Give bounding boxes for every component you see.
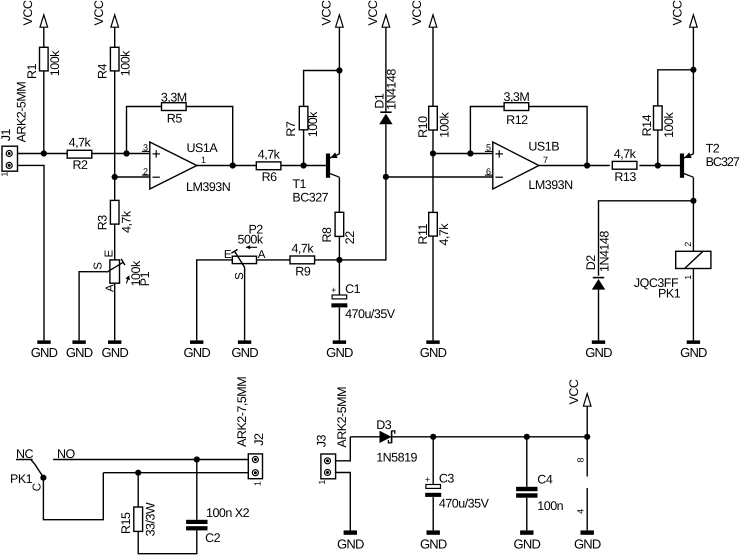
relay contact PK1 (NC/NO/C) (10, 447, 76, 491)
wire D1 anode down (339, 124, 386, 260)
wire P2 wiper to GND (244, 268, 246, 341)
svg-text:8: 8 (575, 458, 585, 463)
ground (D2) (585, 340, 612, 360)
svg-text:C: C (31, 483, 43, 491)
junction R12 feedback/+input (467, 150, 473, 156)
wire R10 node to US1B +input (433, 153, 493, 155)
wire VCC to R4 (114, 27, 116, 47)
op-amp US1A LM393N (142, 141, 231, 194)
svg-text:1N4148: 1N4148 (598, 231, 612, 272)
svg-text:GND: GND (337, 537, 364, 552)
resistor R4 100k (96, 47, 133, 79)
junction R7/base wire (301, 162, 307, 168)
ground (C4) (514, 530, 541, 551)
wire collector to D2 (599, 201, 694, 276)
relay coil PK1 JQC3FF (634, 242, 711, 301)
svg-text:A: A (258, 249, 266, 261)
wire US1B output (539, 165, 610, 167)
svg-text:2: 2 (143, 166, 148, 176)
svg-text:R10: R10 (416, 116, 430, 138)
svg-text:GND: GND (101, 345, 128, 360)
wire VCC to supply row (586, 406, 588, 476)
wire R7 top (304, 71, 340, 107)
svg-text:R7: R7 (284, 121, 298, 137)
svg-text:GND: GND (231, 345, 258, 360)
svg-text:+: + (331, 285, 336, 295)
svg-text:GND: GND (183, 345, 210, 360)
svg-text:R1: R1 (25, 63, 39, 79)
wire coil to GND (692, 269, 694, 341)
wire T1 collector to R8 (338, 177, 340, 212)
capacitor C3 470u/35V (425, 472, 490, 511)
wire C3 to GND (432, 497, 434, 530)
wire NO row (53, 459, 248, 461)
svg-text:ARK2-5MM: ARK2-5MM (14, 82, 28, 143)
capacitor C4 100n (516, 472, 564, 513)
connector J2 ARK2-7,5MM (235, 377, 266, 486)
junction D1/US1B -input (383, 174, 389, 180)
diode D1 1N4148 (372, 69, 398, 125)
wire C to riser (43, 473, 103, 520)
svg-text:1: 1 (201, 155, 206, 165)
svg-text:US1A: US1A (187, 141, 219, 155)
svg-text:J1: J1 (0, 128, 13, 141)
svg-text:22: 22 (343, 231, 357, 244)
wire J1 pin1 to R2 (18, 153, 68, 155)
junction R1/J1/R2 (41, 150, 47, 156)
wire -input junction to R3 (114, 177, 116, 200)
svg-text:US1B: US1B (528, 140, 559, 154)
svg-text:4,7k: 4,7k (291, 242, 314, 256)
svg-text:J2: J2 (252, 433, 266, 446)
wire D2 to GND (598, 290, 600, 341)
resistor R10 100k (416, 106, 452, 138)
wire J3 pin2 to GND (336, 473, 351, 531)
svg-text:GND: GND (326, 345, 353, 360)
wire C1 to GND (338, 308, 340, 341)
wire P2-A to R9 (257, 259, 291, 261)
resistor R1 100k (25, 47, 62, 79)
svg-text:PK1: PK1 (10, 472, 33, 486)
svg-text:J3: J3 (315, 434, 329, 447)
wire J3 pin1 up (336, 437, 351, 461)
resistor R2 4,7k (67, 135, 92, 172)
svg-text:R14: R14 (640, 114, 654, 136)
svg-text:7: 7 (543, 155, 548, 165)
wire P2-E to GND (197, 260, 233, 341)
svg-text:GND: GND (420, 537, 447, 552)
svg-text:T1: T1 (292, 177, 306, 191)
wire R8 to node (338, 236, 340, 260)
wire C2 top (196, 460, 198, 520)
ground (J1) (31, 340, 58, 360)
svg-text:500k: 500k (238, 232, 264, 246)
svg-text:1N5819: 1N5819 (376, 450, 417, 464)
junction VCC/R14/T2 emitter (690, 67, 696, 73)
wire J3 riser to D3 (350, 436, 379, 438)
wire P1 wiper to S column (79, 272, 107, 341)
svg-text:BC327: BC327 (292, 190, 328, 204)
svg-text:E: E (224, 249, 232, 261)
junction R14/base wire (655, 162, 661, 168)
svg-text:33/3W: 33/3W (143, 502, 157, 536)
svg-text:100k: 100k (662, 112, 676, 138)
svg-text:VCC: VCC (92, 0, 106, 25)
junction C4 top (524, 434, 530, 440)
wire R12 left (470, 107, 504, 154)
wire to US1B -input (386, 176, 493, 178)
ground (C1) (326, 340, 353, 360)
power symbol VCC (R1) (21, 0, 48, 27)
resistor R5 3,3M (161, 91, 187, 126)
svg-text:LM393N: LM393N (186, 180, 231, 194)
svg-text:ARK2-7,5MM: ARK2-7,5MM (235, 377, 249, 447)
svg-text:3,3M: 3,3M (161, 91, 187, 105)
transistor T1 BC327 (PNP) (292, 152, 339, 204)
wire VCC to R10 (432, 27, 434, 106)
wire R10 to +input (432, 130, 434, 212)
svg-text:ARK2-5MM: ARK2-5MM (335, 387, 349, 448)
wire R6 to T1 base (281, 165, 326, 167)
wire R2 to +input (92, 153, 150, 155)
svg-text:R2: R2 (73, 158, 89, 172)
ground (C3) (420, 530, 447, 551)
power symbol VCC (supply) (567, 379, 591, 406)
svg-text:4,7k: 4,7k (437, 223, 451, 246)
svg-text:D3: D3 (376, 418, 392, 432)
svg-text:R15: R15 (119, 512, 133, 534)
svg-text:100k: 100k (48, 50, 62, 76)
svg-text:R6: R6 (262, 170, 278, 184)
op-amp US1B LM393N (485, 140, 573, 193)
svg-text:R4: R4 (96, 63, 110, 79)
ground (R11) (420, 340, 447, 360)
wire R1 to +input row (43, 71, 45, 154)
resistor R12 3,3M (504, 90, 530, 127)
wire VCC to R1 (43, 27, 45, 47)
transistor T2 BC327 (PNP) (680, 142, 740, 178)
svg-text:100k: 100k (438, 112, 452, 138)
svg-text:1: 1 (0, 172, 9, 177)
wire R3 to P1 (114, 224, 116, 260)
svg-text:R3: R3 (96, 215, 110, 231)
svg-text:4,7k: 4,7k (614, 147, 637, 161)
wire R7 bottom (303, 130, 305, 166)
ground (P2 wiper) (231, 340, 258, 360)
wire VCC to T2 emitter (692, 27, 694, 154)
wire C4 to GND (526, 498, 528, 531)
resistor R7 100k (284, 106, 320, 137)
svg-text:4,7k: 4,7k (119, 210, 133, 233)
ground (relay coil) (680, 340, 707, 360)
svg-text:BC327: BC327 (706, 155, 740, 169)
svg-text:R9: R9 (295, 264, 311, 278)
wire R13 to T2 base (639, 165, 680, 167)
ground (P1) (101, 340, 128, 360)
wire R11 to GND (432, 236, 434, 340)
svg-text:R8: R8 (320, 227, 334, 243)
svg-text:R5: R5 (167, 112, 183, 126)
svg-text:E: E (104, 250, 116, 258)
svg-text:R12: R12 (506, 113, 528, 127)
svg-text:R11: R11 (416, 223, 430, 244)
wire R5 left (127, 107, 162, 154)
resistor R11 4,7k (416, 212, 451, 245)
power symbol VCC (T2/R14) (671, 0, 698, 27)
junction VCC/R7/T1 emitter (336, 67, 342, 73)
junction C3 top (430, 434, 436, 440)
svg-text:R13: R13 (614, 170, 636, 184)
svg-text:VCC: VCC (671, 0, 685, 25)
resistor R15 33/3W (119, 502, 157, 536)
power symbol VCC (D1) (366, 0, 390, 27)
diode D2 1N4148 (584, 231, 612, 290)
junction T2 collector/D2/relay (690, 198, 696, 204)
junction R15 top (135, 470, 141, 476)
capacitor C1 470u/35V (331, 282, 396, 321)
svg-text:GND: GND (420, 345, 447, 360)
wire C row (103, 472, 248, 474)
connector J3 ARK2-5MM (315, 387, 349, 485)
svg-text:GND: GND (574, 537, 601, 552)
junction R5 feedback/+input (123, 150, 129, 156)
pin 4 label (575, 509, 585, 514)
wire node to C1 (338, 260, 340, 295)
wire C4 top (526, 437, 528, 487)
svg-text:GND: GND (514, 537, 541, 552)
wire J1 pin2 to GND (18, 165, 45, 340)
junction timing node (336, 257, 342, 263)
ground (J3) (337, 530, 364, 551)
wire T2 collector down (692, 177, 694, 251)
potentiometer P1 100k (92, 250, 151, 293)
ground (P1 wiper) (66, 340, 93, 360)
wire R14 bottom (657, 130, 659, 166)
svg-text:VCC: VCC (21, 0, 35, 25)
svg-text:P1: P1 (138, 271, 152, 286)
pin 8 label (575, 458, 585, 463)
svg-text:GND: GND (31, 345, 58, 360)
svg-text:VCC: VCC (567, 379, 581, 404)
svg-text:1: 1 (252, 481, 262, 486)
svg-text:VCC: VCC (366, 0, 380, 25)
svg-text:GND: GND (66, 345, 93, 360)
ground (P2-E) (183, 340, 210, 360)
svg-text:6: 6 (486, 166, 491, 176)
resistor R6 4,7k (256, 147, 281, 184)
svg-text:S: S (92, 262, 104, 270)
wire supply row (392, 436, 587, 438)
power symbol VCC (R4) (92, 0, 119, 27)
junction R10/R11/+input (430, 150, 436, 156)
svg-text:100k: 100k (119, 50, 133, 76)
svg-text:100n X2: 100n X2 (206, 506, 250, 520)
svg-text:C4: C4 (537, 472, 553, 486)
potentiometer P2 500k (224, 223, 266, 280)
svg-text:470u/35V: 470u/35V (345, 307, 396, 321)
junction output/feedback B (584, 162, 590, 168)
connector J1 ARK2-5MM (0, 82, 28, 177)
resistor R13 4,7k (612, 147, 637, 184)
power symbol VCC (T1/R7) (319, 0, 343, 27)
wire VCC to T1 emitter (338, 27, 340, 154)
svg-text:2: 2 (683, 242, 693, 247)
wire R5 right (186, 107, 233, 166)
svg-text:4,7k: 4,7k (258, 147, 281, 161)
svg-text:LM393N: LM393N (528, 178, 573, 192)
svg-text:1: 1 (317, 480, 327, 485)
wire R14 top (658, 70, 694, 106)
junction C2 top (194, 456, 200, 462)
wire US1A output (197, 165, 256, 167)
wire P1 bottom to GND (114, 283, 116, 340)
resistor R14 100k (640, 106, 676, 138)
svg-text:1: 1 (683, 275, 693, 280)
svg-text:1N4148: 1N4148 (385, 69, 399, 110)
wire C3 top (432, 437, 434, 485)
svg-text:100k: 100k (306, 111, 320, 137)
svg-text:VCC: VCC (410, 0, 424, 25)
resistor R9 4,7k (290, 242, 315, 279)
svg-text:GND: GND (585, 345, 612, 360)
capacitor C2 100n X2 (186, 506, 250, 545)
svg-text:VCC: VCC (319, 0, 333, 25)
svg-text:4,7k: 4,7k (69, 135, 92, 149)
svg-text:100n: 100n (537, 499, 563, 513)
svg-text:4: 4 (575, 509, 585, 514)
wire VCC to D1 (385, 27, 387, 112)
wire pin 4 stub (586, 488, 588, 530)
resistor R3 4,7k (96, 200, 134, 233)
svg-text:+: + (425, 474, 430, 484)
svg-text:C2: C2 (205, 531, 221, 545)
wire -input row to US1A (115, 176, 150, 178)
svg-text:PK1: PK1 (658, 287, 681, 301)
svg-text:3: 3 (143, 143, 148, 153)
svg-text:T2: T2 (706, 142, 720, 156)
wire R15 top (137, 473, 139, 507)
ground (IC pin 4) (574, 530, 601, 551)
svg-text:C1: C1 (345, 282, 361, 296)
junction R4/R3/-input (112, 174, 118, 180)
power symbol VCC (R10) (410, 0, 437, 27)
junction output/feedback A (230, 162, 236, 168)
svg-text:470u/35V: 470u/35V (439, 497, 490, 511)
diode D3 1N5819 (schottky) (376, 418, 417, 464)
resistor R8 22 (320, 212, 357, 244)
svg-text:3,3M: 3,3M (504, 90, 530, 104)
svg-text:GND: GND (680, 345, 707, 360)
junction VCC column (584, 434, 590, 440)
svg-text:D2: D2 (584, 255, 598, 271)
wire R9 to node (314, 259, 339, 261)
svg-text:C3: C3 (439, 472, 455, 486)
wire R4 to -input junction (114, 71, 116, 177)
wire R12 right (528, 107, 587, 166)
svg-text:5: 5 (486, 143, 491, 153)
wire R15 bottom loop (138, 530, 197, 553)
